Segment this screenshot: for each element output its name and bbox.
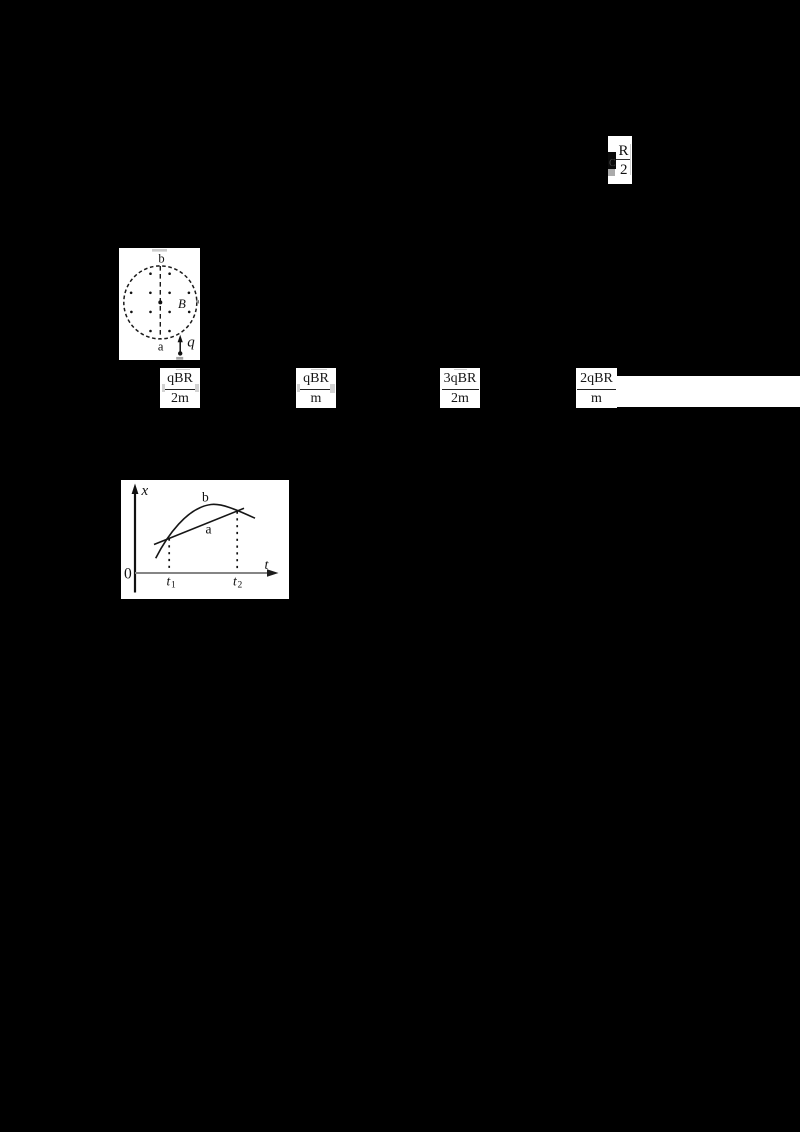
- equation fragment R/2 (top right): [608, 136, 632, 184]
- svg-text:x: x: [141, 483, 149, 499]
- svg-text:a: a: [158, 340, 164, 354]
- svg-text:0: 0: [124, 565, 132, 582]
- svg-text:2: 2: [238, 580, 243, 590]
- option D fraction 2qBR/m: [576, 368, 617, 408]
- svg-text:b: b: [158, 252, 164, 266]
- charge q velocity arrow: [179, 341, 181, 353]
- gray vertical line: [630, 144, 631, 175]
- option C fraction 3qBR/2m: [440, 368, 480, 408]
- numerator R: [619, 143, 629, 160]
- line a: [154, 508, 244, 544]
- dashed diameter line a-b: [159, 266, 161, 339]
- gray smudge at top: [152, 249, 167, 252]
- field dots row 1: [149, 272, 152, 275]
- curve b: [156, 504, 255, 558]
- fraction bar: [616, 159, 631, 161]
- option B fraction qBR/m: [296, 368, 336, 408]
- denominator 2: [620, 162, 628, 179]
- charge q dot: [178, 351, 182, 355]
- svg-text:B: B: [178, 297, 186, 311]
- svg-text:q: q: [187, 335, 195, 351]
- x axis (gray): [135, 572, 271, 574]
- dashed field-region circle: [124, 266, 197, 339]
- field dots row 3: [130, 311, 133, 314]
- option A fraction qBR/2m: [160, 368, 200, 408]
- x axis arrowhead: [267, 569, 279, 577]
- artifact marks at right edge: [196, 300, 199, 304]
- svg-text:a: a: [206, 522, 212, 537]
- dotted drop line t2: [236, 512, 238, 573]
- black block with faint C: [608, 152, 616, 169]
- magnetic field circle diagram: [119, 248, 200, 360]
- x-t graph: [121, 480, 289, 599]
- field dots row 4: [149, 330, 152, 333]
- gray smudge under charge: [176, 357, 183, 360]
- dotted drop line t1: [168, 539, 170, 573]
- option D white strip: [576, 376, 800, 408]
- field dots row 2: [130, 292, 133, 295]
- gray block: [608, 169, 615, 176]
- svg-text:1: 1: [171, 580, 176, 590]
- y axis: [134, 490, 136, 593]
- svg-text:b: b: [202, 490, 209, 505]
- center dot: [158, 300, 162, 304]
